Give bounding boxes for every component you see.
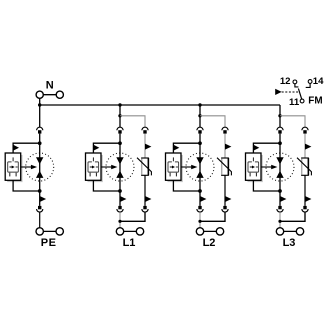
wire: PE leg, through protection stage xyxy=(39,134,41,206)
disconnect symbol: top lead dash (L3) xyxy=(252,157,254,161)
disconnect symbol: contact housing (L1) xyxy=(88,162,99,172)
flag: plug-in arrow on L3 main line above bottom plug xyxy=(280,196,286,202)
junction: bottom stub / PE line xyxy=(38,189,42,193)
varistor L3: right edge emphasis xyxy=(307,158,309,175)
wire: top stub from disconnect box to L2 line xyxy=(173,143,200,153)
disconnect symbol: dashed link to gap (L2) xyxy=(176,166,178,168)
plug-in connection (top, L1 main branch): plug pin xyxy=(118,130,121,133)
varistor L1: diagonal stroke xyxy=(137,158,151,176)
flag: plug-in arrow on L2 main line above bottom plug xyxy=(200,196,206,202)
svg-text:FM: FM xyxy=(308,95,322,106)
wire: L1 varistor branch, varistor to bottom plug xyxy=(144,175,146,206)
wire: bottom stub from disconnect box to L3 line xyxy=(253,180,280,191)
plug-in connection (top, PE leg): socket arc xyxy=(37,127,43,130)
disconnect symbol: contact housing (L2) xyxy=(168,162,179,172)
wire: L2 split to varistor branch (light) xyxy=(200,116,225,128)
junction: bus / PE leg xyxy=(38,103,41,106)
varistor L1: right edge emphasis xyxy=(147,158,149,175)
junction: L2 branch split xyxy=(198,114,201,117)
svg-text:L1: L1 xyxy=(123,237,136,249)
spark gap upper electrode (L3) xyxy=(276,157,283,164)
flag: plug-in arrow on L3 varistor branch (top) xyxy=(305,144,311,150)
flag: plug-in arrow on top stub of L1 xyxy=(94,145,100,151)
flag: plug-in arrow on PE line above bottom plug xyxy=(40,196,46,202)
wire: L3 main branch, plug to terminal (light) xyxy=(279,212,281,228)
disconnect symbol: lower terminals (L1) xyxy=(89,173,91,177)
spark gap enclosure (dashed circle, PE) xyxy=(26,153,54,181)
spark gap lower electrode (L2) xyxy=(196,171,203,178)
varistor L1: body xyxy=(142,158,149,175)
wire: PE leg, bus to top plug connection xyxy=(39,105,41,127)
wire: N terminal down to bus xyxy=(39,98,41,105)
terminal circle N (left) xyxy=(36,91,43,98)
wire: L2 leg, bus to branch split xyxy=(199,105,201,116)
FM contact: changeover lever xyxy=(298,89,301,100)
wire: bottom stub from disconnect box to PE line xyxy=(13,180,40,191)
plug-in connection (top, L3 varistor branch): socket arc xyxy=(302,127,308,130)
wire: top stub from disconnect box to PE line xyxy=(13,143,40,153)
thermal disconnect device box (L1) xyxy=(86,153,102,180)
terminal circle L2 (left) xyxy=(196,228,203,235)
thermal disconnect box shadow (L2) xyxy=(168,155,182,181)
thermal disconnect box shadow (L1) xyxy=(88,155,102,181)
plug-in connection (top, L3 main branch): socket arc xyxy=(277,127,283,130)
disconnect symbol: dashed link to gap (L3) xyxy=(256,166,258,168)
wire: terminal link L2 xyxy=(200,230,220,232)
plug-in connection (bottom, PE leg): socket arc xyxy=(37,209,43,212)
plug-in connection (top, L2 main branch): socket arc xyxy=(197,127,203,130)
varistor L2: left edge (light print) xyxy=(221,159,223,175)
plug-in connection (bottom, L1 main branch): plug pin xyxy=(118,206,121,209)
plug-in connection (top, PE leg): plug pin xyxy=(38,130,41,133)
junction: top stub / PE line xyxy=(38,141,42,145)
spark gap lower electrode (L1) xyxy=(116,171,123,178)
junction: L3 branch merge xyxy=(278,220,281,223)
plug-in connection (bottom, L3 main branch): socket arc xyxy=(277,209,283,212)
wire: L3 varistor branch merge xyxy=(280,212,305,221)
svg-text:14: 14 xyxy=(313,76,324,87)
varistor L1: left edge (light print) xyxy=(141,159,143,175)
plug-in connection (top, L3 varistor branch): plug pin xyxy=(303,130,306,133)
wire: PE leg, plug connection to terminal xyxy=(39,212,41,228)
spark gap upper electrode (L2) xyxy=(196,157,203,164)
spark gap enclosure (dashed circle, L3) xyxy=(266,153,294,181)
terminal circle L3 (left) xyxy=(276,228,283,235)
FM contact: dashed actuation link xyxy=(282,91,300,93)
plug-in connection (bottom, L3 main branch): plug pin xyxy=(278,206,281,209)
disconnect symbol: lower terminals (L2) xyxy=(169,173,171,177)
wire: top stub from disconnect box to L1 line xyxy=(93,143,120,153)
svg-text:L3: L3 xyxy=(283,237,296,249)
disconnect symbol: dashed link to gap (L1) xyxy=(96,166,98,168)
wire: L1 main branch, split to top plug connection xyxy=(119,116,121,128)
wire: L2 varistor branch, plug to varistor (light) xyxy=(224,134,226,158)
FM contact: NO contact 14 xyxy=(306,84,310,88)
junction: top stub / L3 line xyxy=(278,141,282,145)
flag: plug-in arrow on L1 main line above bottom plug xyxy=(120,196,126,202)
plug-in connection (bottom, L2 main branch): plug pin xyxy=(198,206,201,209)
wire: L1 split to varistor branch (light) xyxy=(120,116,145,128)
disconnect symbol: lower terminals (PE) xyxy=(9,173,11,177)
svg-text:12: 12 xyxy=(280,76,291,87)
disconnect symbol: top lead dash (L2) xyxy=(172,157,174,161)
terminal circle N (right) xyxy=(56,91,63,98)
plug-in connection (bottom, L2 varistor branch): plug pin xyxy=(223,206,226,209)
wire: L1 main branch, plug to terminal (light) xyxy=(119,212,121,228)
thermal disconnect device box (L2) xyxy=(166,153,182,180)
plug-in connection (bottom, L3 varistor branch): socket arc xyxy=(302,209,308,212)
plug-in connection (top, L1 main branch): socket arc xyxy=(117,127,123,130)
trigger arrow into spark gap (L2) xyxy=(181,166,192,168)
disconnect symbol: top lead dash (L1) xyxy=(92,157,94,161)
plug-in connection (bottom, L1 varistor branch): socket arc xyxy=(142,209,148,212)
flag: plug-in arrow on L2 varistor branch (top) xyxy=(225,144,231,150)
trigger arrow into spark gap (L3) xyxy=(261,166,272,168)
flag: plug-in arrow on top stub of L3 xyxy=(254,145,259,151)
varistor L3: body xyxy=(302,158,309,175)
plug-in connection (top, L1 varistor branch): plug pin xyxy=(143,130,146,133)
svg-text:N: N xyxy=(46,80,54,92)
disconnect symbol: trip arrow (L3) xyxy=(250,166,252,168)
FM contact: terminal circle 11 xyxy=(300,99,304,103)
varistor L3: left edge (light print) xyxy=(301,159,303,175)
plug-in connection (bottom, L1 main branch): socket arc xyxy=(117,209,123,212)
wire: bottom stub from disconnect box to L1 line xyxy=(93,180,120,191)
svg-text:L2: L2 xyxy=(203,237,216,249)
plug-in connection (bottom, L1 varistor branch): plug pin xyxy=(143,206,146,209)
wire: L2 main branch, plug to terminal (light) xyxy=(199,212,201,228)
wire: bottom stub from disconnect box to L2 line xyxy=(173,180,200,191)
wire: L3 varistor branch, varistor to bottom plug xyxy=(304,175,306,206)
wire: L1 varistor branch, plug to varistor (light) xyxy=(144,134,146,158)
plug-in connection (top, L1 varistor branch): socket arc xyxy=(142,127,148,130)
terminal N: link wire xyxy=(40,94,60,96)
trigger arrow into spark gap (L1) xyxy=(101,166,112,168)
wire: top stub from disconnect box to L3 line xyxy=(253,143,280,153)
wire: terminal link L1 xyxy=(120,230,140,232)
junction: bottom stub / L2 line xyxy=(198,189,202,193)
disconnect symbol: trip arrow (L2) xyxy=(170,166,172,168)
wire: N bus xyxy=(40,104,280,106)
wire: L3 varistor branch, plug to varistor (light) xyxy=(304,134,306,158)
varistor L2: right edge emphasis xyxy=(227,158,229,175)
varistor L2: body xyxy=(222,158,229,175)
flag: plug-in arrow on top stub of L2 xyxy=(174,145,180,151)
disconnect symbol: trip arrow (PE) xyxy=(10,166,12,168)
flag: plug-in arrow on L3 varistor branch above bottom plug xyxy=(305,196,311,202)
spark gap lower electrode (PE) xyxy=(36,171,43,178)
junction: bottom stub / L3 line xyxy=(278,189,282,193)
flag: plug-in arrow on L1 varistor branch above bottom plug xyxy=(145,196,151,202)
junction: bus / L1 leg xyxy=(118,103,121,106)
FM contact: terminal circle 14 xyxy=(308,80,312,84)
varistor L2: diagonal stroke xyxy=(217,158,231,176)
terminal circle L1 (right) xyxy=(136,228,143,235)
terminal circle PE (right) xyxy=(56,228,63,235)
terminal circle L2 (right) xyxy=(216,228,223,235)
disconnect symbol: lower terminals (L3) xyxy=(249,173,251,177)
spark gap lower electrode (L3) xyxy=(276,171,283,178)
disconnect symbol: contact housing (PE) xyxy=(8,162,19,172)
wire: terminal link L3 xyxy=(280,230,300,232)
wire: L2 varistor branch, varistor to bottom plug xyxy=(224,175,226,206)
wire: L2 main branch, split to top plug connection xyxy=(199,116,201,128)
wire: L3 main branch through protection stage xyxy=(279,134,281,206)
flag: plug-in arrow on L2 varistor branch above bottom plug xyxy=(225,196,231,202)
thermal disconnect box shadow (PE) xyxy=(7,155,21,181)
plug-in connection (bottom, L2 main branch): socket arc xyxy=(197,209,203,212)
flag: plug-in arrow on L1 varistor branch (top) xyxy=(145,144,151,150)
junction: L1 branch split xyxy=(118,114,121,117)
plug-in connection (bottom, L2 varistor branch): socket arc xyxy=(222,209,228,212)
FM contact: NC contact 12 xyxy=(295,84,299,87)
junction: L2 branch merge xyxy=(198,220,201,223)
wire: L2 main branch through protection stage xyxy=(199,134,201,206)
wire: L3 main branch, split to top plug connection xyxy=(279,116,281,128)
plug-in connection (top, L2 varistor branch): socket arc xyxy=(222,127,228,130)
spark gap upper electrode (PE) xyxy=(36,157,43,164)
terminal circle L1 (left) xyxy=(116,228,123,235)
junction: L3 branch split xyxy=(278,114,281,117)
flag: plug-in arrow on top stub of PE xyxy=(14,145,20,151)
plug-in connection (top, L3 main branch): plug pin xyxy=(278,130,281,133)
plug-in connection (bottom, PE leg): plug pin xyxy=(38,206,41,209)
junction: L1 branch merge xyxy=(118,220,121,223)
wire: terminal link PE xyxy=(40,230,60,232)
thermal disconnect box shadow (L3) xyxy=(248,155,262,181)
svg-text:PE: PE xyxy=(41,237,57,249)
disconnect symbol: contact housing (L3) xyxy=(248,162,259,172)
disconnect symbol: top lead dash (PE) xyxy=(12,157,14,161)
FM contact: terminal circle 12 xyxy=(293,80,297,84)
wire: L1 leg, bus to branch split xyxy=(119,105,121,116)
wire: L1 main branch through protection stage xyxy=(119,134,121,206)
disconnect symbol: dashed link to gap (PE) xyxy=(16,166,18,168)
thermal disconnect device box (PE) xyxy=(5,153,21,180)
spark gap enclosure (dashed circle, L2) xyxy=(186,153,214,181)
varistor L3: diagonal stroke xyxy=(297,158,311,176)
FM contact: actuation arrow xyxy=(275,89,282,95)
wire: L2 varistor branch merge xyxy=(200,212,225,221)
plug-in connection (top, L2 main branch): plug pin xyxy=(198,130,201,133)
junction: bus / L2 leg xyxy=(198,103,201,106)
disconnect symbol: trip arrow (L1) xyxy=(90,166,92,168)
spark gap enclosure (dashed circle, L1) xyxy=(106,153,134,181)
wire: L3 split to varistor branch (light) xyxy=(280,116,305,128)
plug-in connection (bottom, L3 varistor branch): plug pin xyxy=(303,206,306,209)
junction: top stub / L2 line xyxy=(198,141,202,145)
junction: top stub / L1 line xyxy=(118,141,122,145)
spark gap upper electrode (L1) xyxy=(116,157,123,164)
thermal disconnect device box (L3) xyxy=(246,153,262,180)
terminal circle L3 (right) xyxy=(296,228,303,235)
terminal circle PE (left) xyxy=(36,228,43,235)
plug-in connection (top, L2 varistor branch): plug pin xyxy=(223,130,226,133)
trigger arrow into spark gap (PE) xyxy=(21,166,32,168)
junction: bottom stub / L1 line xyxy=(118,189,122,193)
wire: L3 leg, bus to branch split xyxy=(279,105,281,116)
svg-text:11: 11 xyxy=(289,97,300,108)
wire: L1 varistor branch merge xyxy=(120,212,145,221)
